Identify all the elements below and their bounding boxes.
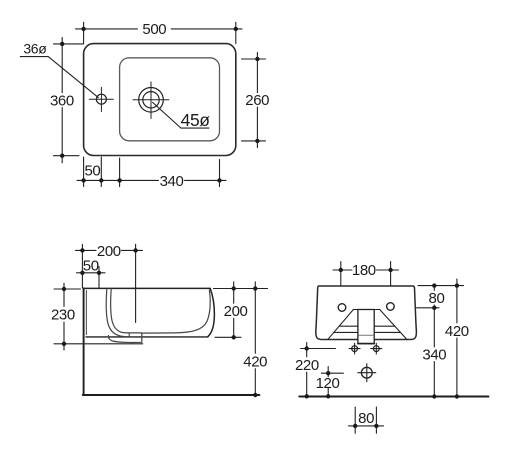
svg-text:45ø: 45ø (181, 110, 211, 130)
svg-text:500: 500 (142, 21, 166, 38)
svg-text:340: 340 (160, 173, 184, 190)
svg-text:230: 230 (51, 307, 75, 324)
side view bowl left inner wall (106, 289, 141, 337)
svg-text:50: 50 (83, 258, 99, 275)
dim 50 bottom of top view (77, 157, 159, 187)
side view back wall (83, 288, 85, 395)
side view floor line (83, 394, 260, 396)
dim 80 back view upper right (417, 283, 464, 310)
dim 420 side view (253, 282, 257, 397)
dim 500 top (76, 22, 243, 43)
svg-text:340: 340 (422, 347, 446, 364)
svg-text:80: 80 (358, 410, 374, 427)
label 45 dia with leader (153, 102, 209, 128)
dim 340 bottom of top view (117, 158, 226, 187)
dim 180 back view (333, 262, 399, 286)
dim 340 back view (432, 308, 436, 399)
svg-text:80: 80 (429, 290, 445, 307)
svg-text:260: 260 (245, 92, 269, 109)
side view inner back line (85, 291, 87, 335)
back view floor line (299, 396, 488, 398)
svg-text:50: 50 (84, 163, 100, 180)
dim 120 back view (321, 367, 343, 399)
back view left bolt (349, 343, 360, 354)
back view drain structure (328, 310, 407, 344)
label 36 dia with leader (20, 57, 98, 98)
dim 50 side view (77, 267, 106, 288)
svg-text:420: 420 (243, 354, 267, 371)
svg-text:200: 200 (224, 303, 248, 320)
top view inner basin rim (120, 58, 220, 141)
svg-text:220: 220 (295, 357, 319, 374)
side view right outer wall (208, 289, 215, 337)
tap hole 36 dia circle (89, 87, 113, 111)
dim 200 right of side view (214, 282, 268, 340)
side view rim top (85, 287, 211, 289)
svg-text:360: 360 (50, 93, 74, 110)
top view outer rim (84, 44, 236, 156)
drain hole 45 dia (133, 82, 169, 119)
dim 260 right (242, 53, 266, 148)
dim 220 back view (301, 343, 336, 399)
svg-text:420: 420 (445, 323, 469, 340)
dim 230 side view left (54, 283, 143, 350)
back view outline (316, 286, 417, 340)
back view left mounting hole (338, 304, 346, 312)
dim 360 left (53, 37, 83, 162)
svg-text:200: 200 (97, 243, 121, 260)
dim 80 back view bottom (349, 407, 384, 433)
side view underside (86, 336, 208, 338)
side view right inner wall and bowl bottom (142, 290, 211, 333)
dim 420 back view (455, 279, 459, 399)
back view right mounting hole (387, 303, 395, 311)
back view outlet hole (358, 364, 376, 382)
svg-text:36ø: 36ø (23, 41, 47, 57)
side view drain outlet (108, 333, 141, 343)
svg-text:180: 180 (352, 262, 376, 279)
back view right bolt (371, 343, 382, 354)
svg-text:120: 120 (316, 375, 340, 392)
dim 200 top of side view (76, 244, 143, 322)
